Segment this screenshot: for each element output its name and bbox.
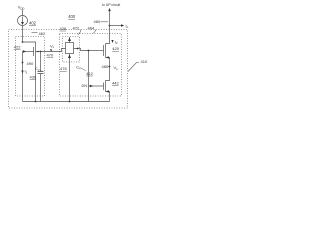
transistor M440 gate bar — [103, 83, 105, 91]
svg-text:Io: Io — [126, 23, 129, 29]
svg-text:472: 472 — [73, 25, 80, 30]
svg-text:Vx: Vx — [50, 43, 55, 49]
svg-text:460: 460 — [94, 19, 101, 24]
junction dot source/rail — [35, 101, 37, 103]
svg-text:490: 490 — [27, 61, 34, 66]
svg-text:402: 402 — [29, 21, 37, 26]
label 402 — [29, 21, 37, 26]
bottom rail wire — [23, 101, 110, 103]
svg-text:420: 420 — [112, 46, 119, 51]
transistor M422 gate bar — [33, 47, 35, 56]
label 410 with leader — [141, 59, 148, 64]
junction dot 2 — [37, 51, 39, 53]
svg-text:476: 476 — [60, 66, 67, 71]
svg-text:412: 412 — [86, 71, 93, 76]
transistor M420 gate bar — [103, 45, 105, 56]
wire VDD to current source — [22, 10, 24, 16]
wire node to M440 drain — [106, 67, 110, 81]
center column lead to rail — [69, 63, 71, 102]
M420 drain lead — [106, 26, 110, 44]
svg-text:430: 430 — [30, 75, 37, 80]
text to UP circuit — [102, 3, 120, 7]
label 442 — [112, 81, 119, 86]
capacitor Cx plates — [38, 71, 44, 73]
output node dot — [109, 25, 111, 27]
svg-text:410: 410 — [141, 59, 148, 64]
current arrow I2 at M420 drain — [111, 40, 113, 43]
source lead of M422 down to rail — [35, 58, 37, 102]
inner dashed box center (472 region) — [63, 37, 80, 63]
label Vs — [114, 65, 119, 71]
svg-text:400: 400 — [68, 14, 76, 19]
wire current source down to node — [22, 26, 24, 43]
output wire up with arrow to UP circuit — [109, 9, 111, 26]
signal line lower to rail — [88, 72, 90, 102]
label 470 — [47, 53, 54, 58]
M440 source lead with arrow — [106, 92, 110, 102]
mirror block H element body — [66, 43, 74, 54]
svg-text:I1: I1 — [25, 69, 28, 75]
label 480 with leader — [102, 64, 109, 69]
label 464 with arc leader — [88, 25, 95, 30]
label 426 top of center box — [60, 26, 67, 31]
label 490 — [27, 61, 34, 66]
inner dashed box wide right (464 region) — [60, 34, 122, 97]
svg-text:Cs: Cs — [76, 64, 81, 70]
H element top lead with up arrow — [69, 37, 71, 43]
transistor M422 channel bar — [35, 46, 37, 58]
label Cx with leader — [35, 66, 40, 72]
wire left rail down — [22, 52, 24, 102]
junction dot — [88, 50, 90, 52]
svg-text:464: 464 — [88, 25, 95, 30]
junction dot — [40, 51, 42, 53]
node 490 dot — [22, 62, 24, 64]
current arrow I1 on left rail — [21, 71, 23, 74]
node junction dot — [22, 41, 24, 43]
svg-text:DN: DN — [82, 84, 88, 88]
inner dashed box left (462 region) — [16, 37, 45, 97]
wire gate line to M420 — [89, 50, 104, 52]
Vx label with arrow leader — [50, 43, 55, 49]
capacitor Cx lead lower to rail — [40, 74, 42, 102]
svg-text:462: 462 — [39, 31, 46, 36]
svg-text:Vs: Vs — [114, 65, 119, 71]
node Vx wire — [36, 49, 66, 52]
wire drain jog — [23, 42, 36, 46]
label 462 with leader — [39, 31, 46, 36]
label Cs with leader — [76, 64, 81, 70]
label 420 — [112, 46, 119, 51]
svg-text:442: 442 — [112, 81, 119, 86]
svg-text:426: 426 — [60, 26, 67, 31]
node Vs dot between transistors — [109, 66, 111, 68]
gate lead wire with arrowhead — [23, 51, 34, 53]
capacitor Cx lead upper — [40, 52, 42, 72]
svg-text:470: 470 — [47, 53, 54, 58]
label 422 — [14, 44, 21, 49]
junction dot right stub — [77, 48, 79, 50]
DN input label — [82, 84, 88, 88]
label 400 figure number — [68, 14, 76, 19]
VDD label — [18, 5, 25, 11]
label 476 below center box — [60, 66, 67, 71]
svg-text:to UP circuit: to UP circuit — [102, 3, 120, 7]
H element bottom lead with up arrow — [69, 54, 71, 63]
label 412 — [86, 71, 93, 76]
transistor M440 channel bar — [105, 81, 107, 92]
current source 402 (circle with down arrow) — [18, 16, 28, 26]
label 460 with leader — [94, 19, 101, 24]
label 472 with arc leader — [73, 25, 80, 30]
svg-text:VDD: VDD — [18, 5, 25, 11]
H element right stub — [74, 49, 89, 51]
junction dot center/rail — [69, 101, 71, 103]
label 430 — [30, 75, 37, 80]
outer dashed box 410 — [9, 30, 128, 109]
svg-text:Cx: Cx — [35, 66, 40, 72]
capacitor Cs lead upper — [88, 51, 90, 72]
svg-text:422: 422 — [14, 44, 21, 49]
output current arrow Io — [110, 25, 122, 27]
svg-text:I2: I2 — [115, 39, 118, 45]
transistor M420 channel bar — [105, 44, 107, 58]
M420 source lead with arrow — [106, 58, 110, 67]
DN input wire with arrowhead to gate — [89, 85, 104, 87]
